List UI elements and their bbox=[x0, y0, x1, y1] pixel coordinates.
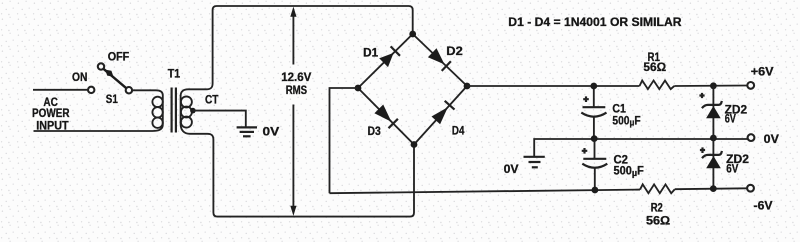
svg-text:+6V: +6V bbox=[751, 65, 774, 78]
terminal 0V bbox=[748, 134, 755, 141]
resistor R2 bbox=[640, 184, 675, 193]
node C1 top bbox=[590, 83, 597, 90]
wire 0V rail bbox=[534, 138, 747, 157]
svg-text:56Ω: 56Ω bbox=[643, 61, 666, 74]
node bridge top bbox=[409, 31, 416, 38]
wire R1 to +6V terminal bbox=[674, 85, 747, 88]
node bridge right bbox=[464, 83, 471, 90]
svg-text:RMS: RMS bbox=[286, 84, 308, 97]
resistor R1 bbox=[640, 81, 675, 90]
svg-text:C1: C1 bbox=[612, 102, 626, 115]
wire R2 to -6V terminal bbox=[675, 187, 747, 190]
svg-text:D3: D3 bbox=[368, 125, 382, 138]
label 12.6V RMS bbox=[281, 71, 311, 97]
ground center tap bbox=[237, 127, 257, 136]
svg-text:ON: ON bbox=[72, 71, 87, 84]
terminal +6V bbox=[747, 82, 754, 89]
svg-text:D2: D2 bbox=[446, 45, 463, 58]
svg-text:-6V: -6V bbox=[754, 200, 773, 213]
svg-text:D1: D1 bbox=[363, 47, 379, 60]
zener ZD2 lower bbox=[700, 138, 722, 189]
diode D3 bbox=[358, 88, 414, 145]
svg-text:0V: 0V bbox=[504, 163, 519, 176]
svg-text:500µF: 500µF bbox=[612, 115, 640, 129]
transformer T1 core bbox=[172, 88, 176, 133]
zener ZD2 upper bbox=[699, 86, 721, 138]
svg-text:D4: D4 bbox=[452, 124, 465, 137]
terminal -6V bbox=[747, 185, 754, 192]
label AC POWER INPUT bbox=[32, 96, 70, 133]
capacitor C2 bbox=[582, 139, 608, 190]
transformer T1 secondary winding bbox=[181, 95, 192, 128]
svg-text:6V: 6V bbox=[726, 162, 738, 175]
switch S1 bbox=[88, 63, 132, 93]
ground 0V rail bbox=[524, 157, 545, 168]
diode D2 bbox=[413, 34, 467, 86]
node zener junction 0V bbox=[710, 135, 717, 142]
wire bridge right vertex to R1 bbox=[467, 85, 640, 87]
svg-text:500µF: 500µF bbox=[614, 165, 644, 179]
wire secondary top to bridge top (top rail) bbox=[181, 6, 413, 96]
node C1 C2 junction bbox=[591, 135, 598, 142]
svg-text:0V: 0V bbox=[263, 126, 280, 139]
node R2 zener junction bbox=[710, 185, 717, 192]
svg-text:POWER: POWER bbox=[32, 107, 70, 120]
diode D1 bbox=[358, 34, 413, 88]
wire AC input lower bbox=[34, 130, 153, 132]
node bridge left bbox=[355, 85, 362, 92]
node CT junction bbox=[190, 108, 196, 114]
svg-text:INPUT: INPUT bbox=[36, 120, 68, 133]
svg-text:6V: 6V bbox=[725, 112, 736, 125]
diode D4 bbox=[414, 86, 467, 145]
svg-text:12.6V: 12.6V bbox=[281, 71, 311, 84]
node R1 zener junction bbox=[710, 82, 717, 89]
transformer T1 primary winding bbox=[152, 90, 162, 131]
svg-text:CT: CT bbox=[205, 94, 219, 107]
wire switch to transformer primary bbox=[132, 89, 156, 91]
svg-text:0V: 0V bbox=[764, 133, 779, 146]
svg-text:OFF: OFF bbox=[108, 51, 130, 64]
svg-text:S1: S1 bbox=[106, 93, 118, 106]
node C2 bottom bbox=[592, 187, 599, 194]
capacitor C1 bbox=[581, 86, 606, 139]
annotation 12.6V RMS measurement arrows bbox=[290, 7, 296, 216]
wire negative rail bbox=[330, 190, 641, 194]
wire bridge left vertex to negative rail bbox=[330, 88, 359, 193]
svg-text:56Ω: 56Ω bbox=[646, 215, 670, 228]
node bridge bottom bbox=[411, 141, 418, 148]
svg-text:D1 - D4 = 1N4001 OR SIMILAR: D1 - D4 = 1N4001 OR SIMILAR bbox=[508, 16, 682, 29]
svg-text:T1: T1 bbox=[168, 68, 181, 81]
svg-text:R2: R2 bbox=[651, 202, 663, 215]
wire secondary bottom to bridge bottom (bottom rail) bbox=[181, 122, 414, 217]
wire center tap bbox=[193, 111, 246, 127]
wire AC input upper bbox=[33, 89, 88, 91]
